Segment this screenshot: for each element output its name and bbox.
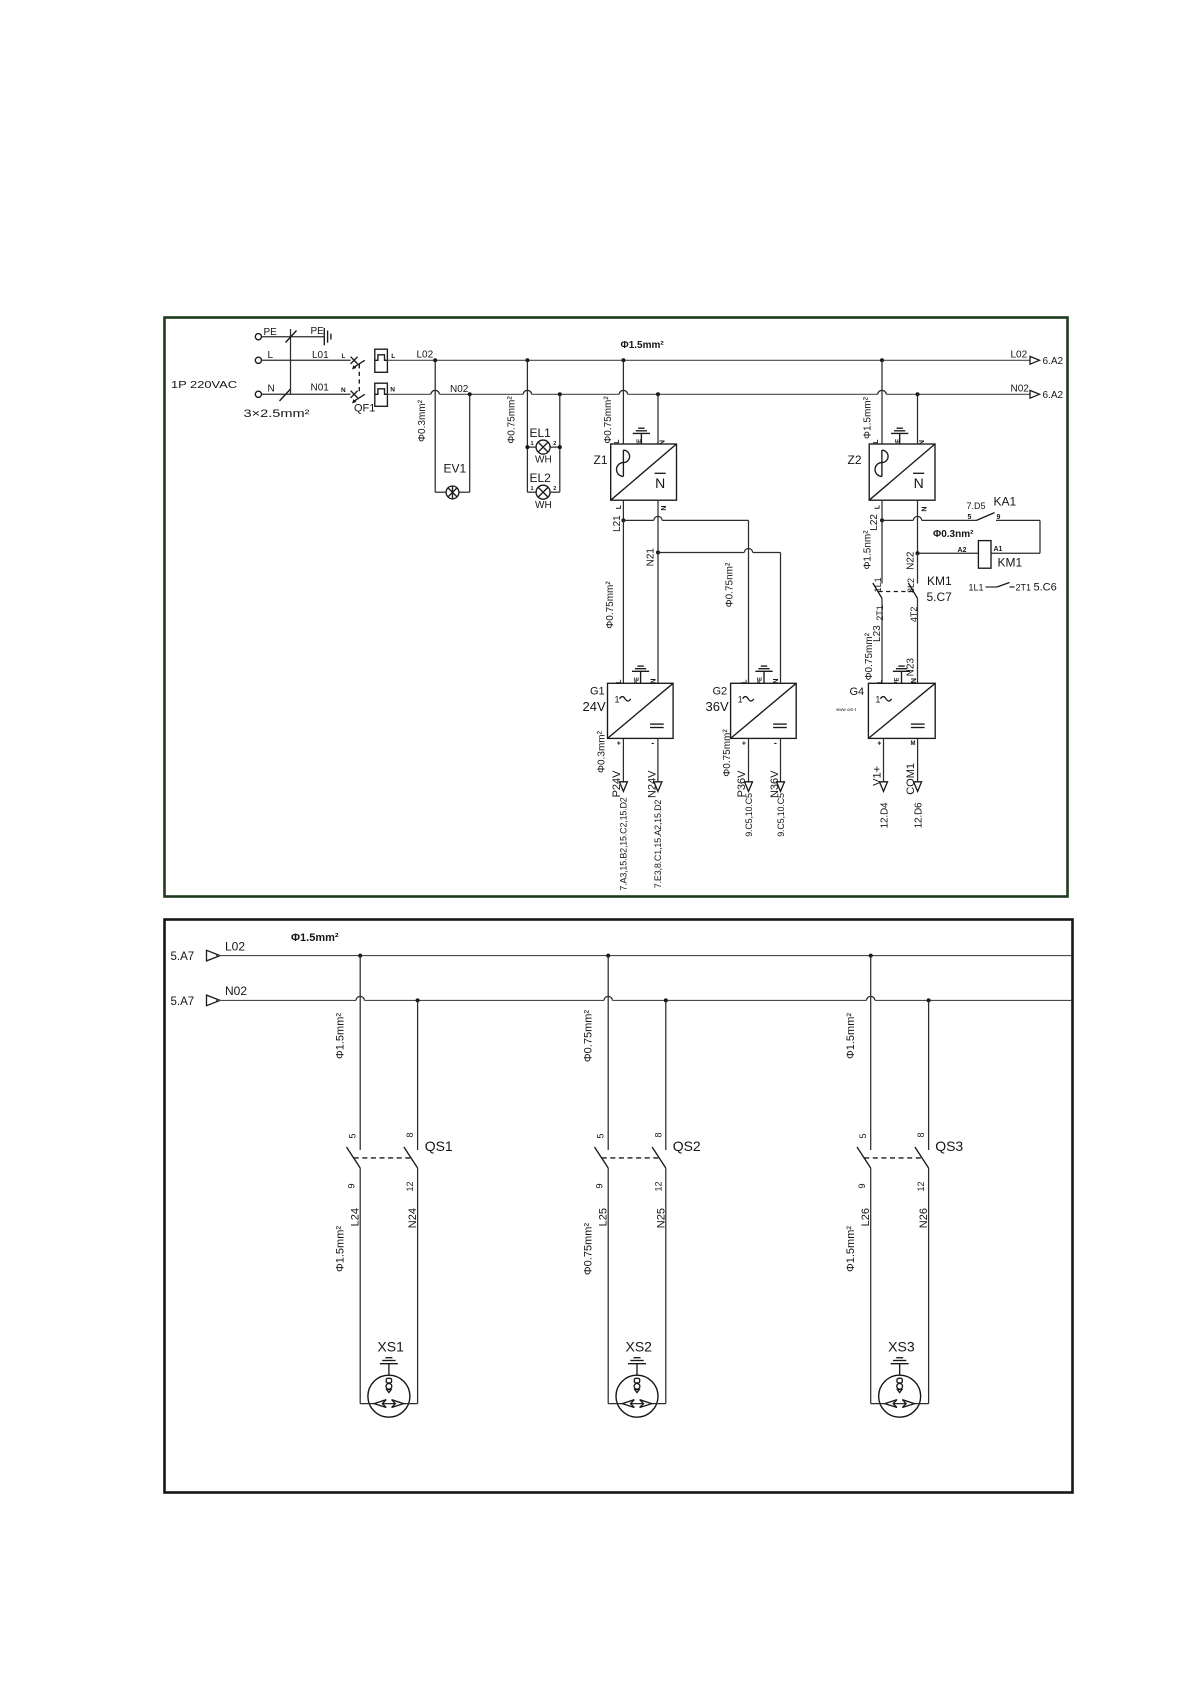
node L21 <box>621 518 625 522</box>
svg-text:2T1: 2T1 <box>875 605 885 621</box>
svg-text:N02: N02 <box>450 384 469 395</box>
svg-text:XS2: XS2 <box>626 1338 653 1354</box>
wire N22 drop <box>917 500 919 553</box>
svg-text:N02: N02 <box>225 984 247 998</box>
ground PE G4 <box>901 671 903 683</box>
svg-text:KM1: KM1 <box>927 574 952 588</box>
arrow P36V <box>745 782 753 792</box>
svg-text:G1: G1 <box>590 686 605 698</box>
svg-text:5: 5 <box>348 1134 358 1139</box>
wire EL left <box>526 360 528 492</box>
bus L02 bottom <box>216 955 1072 957</box>
svg-text:12: 12 <box>653 1182 663 1192</box>
junction dot L02 QS1 <box>358 954 362 958</box>
svg-text:WH: WH <box>535 500 552 511</box>
wire L26 <box>870 1168 872 1404</box>
svg-text:9.C5,10.C5: 9.C5,10.C5 <box>776 793 786 837</box>
svg-text:5.A7: 5.A7 <box>171 951 195 963</box>
svg-text:12.D6: 12.D6 <box>914 802 925 828</box>
wire EV1 bottom <box>435 491 446 493</box>
svg-text:9: 9 <box>595 1184 605 1189</box>
wire L21 drop <box>622 500 624 520</box>
svg-text:5: 5 <box>968 514 972 521</box>
svg-text:EL2: EL2 <box>530 471 552 485</box>
node N21 <box>656 551 660 555</box>
ground XS2 <box>634 1357 641 1359</box>
socket XS1 <box>368 1375 410 1417</box>
junction dot N02 QS1 <box>416 998 420 1002</box>
svg-text:L: L <box>614 439 621 444</box>
svg-text:L: L <box>391 353 395 360</box>
svg-text:PE: PE <box>311 326 325 337</box>
svg-text:7.A3,15.B2,15.C2,15.D2: 7.A3,15.B2,15.C2,15.D2 <box>619 797 629 890</box>
svg-text:Φ1.5mm²: Φ1.5mm² <box>845 1013 857 1059</box>
svg-text:8: 8 <box>405 1133 415 1138</box>
bus N02 bottom with hops <box>216 999 356 1001</box>
svg-text:5: 5 <box>596 1134 606 1139</box>
node N22 <box>916 551 920 555</box>
svg-text:1: 1 <box>531 441 534 447</box>
switch QS3 link <box>864 1157 921 1159</box>
junction dot L02 QS2 <box>606 954 610 958</box>
wire L25 <box>607 1168 609 1404</box>
svg-text:9: 9 <box>347 1184 357 1189</box>
arrow N24V <box>654 782 662 792</box>
socket XS3 earth pin <box>897 1378 902 1383</box>
svg-text:N26: N26 <box>918 1208 930 1228</box>
svg-text:XS3: XS3 <box>888 1338 915 1354</box>
svg-text:A2: A2 <box>958 547 967 554</box>
wire N21 horizontal <box>658 552 744 554</box>
svg-text:5: 5 <box>858 1134 868 1139</box>
wire N24 <box>417 1168 419 1404</box>
svg-text:L01: L01 <box>312 350 329 361</box>
wire L drop QS2 <box>607 956 609 1150</box>
svg-text:2T1: 2T1 <box>1016 583 1032 593</box>
wire corner down <box>1039 520 1041 553</box>
junction dot N02 QS3 <box>927 998 931 1002</box>
arrow P24V <box>619 782 627 792</box>
svg-text:N: N <box>911 678 918 683</box>
svg-text:QS2: QS2 <box>673 1138 701 1154</box>
breaker QF1 link <box>358 364 360 393</box>
wire G1 L input <box>622 520 624 683</box>
svg-text:L02: L02 <box>225 939 245 953</box>
wire coil A1 side <box>991 552 1040 554</box>
wire EL right <box>559 394 561 492</box>
svg-text:N25: N25 <box>655 1208 667 1228</box>
power supply G1 <box>608 683 674 738</box>
svg-text:1: 1 <box>531 486 534 492</box>
terminal PE <box>255 334 261 340</box>
svg-text:2: 2 <box>553 486 556 492</box>
svg-text:1: 1 <box>738 694 743 704</box>
svg-text:L22: L22 <box>869 514 880 531</box>
junction dot N02 QS2 <box>664 998 668 1002</box>
filter Z1 <box>611 444 677 500</box>
ground PE Z1 <box>640 433 642 444</box>
wire Z1 N input <box>657 394 659 444</box>
svg-text:3×2.5mm²: 3×2.5mm² <box>244 408 310 420</box>
wire EV1 right <box>469 394 471 492</box>
svg-text:1: 1 <box>875 694 880 704</box>
svg-text:QF1: QF1 <box>354 403 375 415</box>
svg-text:Φ1.5mm²: Φ1.5mm² <box>863 396 874 439</box>
svg-text:N: N <box>390 387 395 394</box>
wire G1 N input <box>657 553 659 684</box>
ground PE input <box>323 328 325 345</box>
wire COM1 <box>917 738 919 781</box>
wire N26 <box>928 1168 930 1404</box>
svg-text:36V: 36V <box>706 699 729 714</box>
svg-text:Φ1.5mm²: Φ1.5mm² <box>621 340 665 351</box>
socket XS3 slot L <box>885 1400 897 1408</box>
svg-text:L02: L02 <box>417 350 434 361</box>
svg-text:Φ0.75mm²: Φ0.75mm² <box>605 581 616 629</box>
svg-text:N: N <box>921 507 928 512</box>
wire EV1 left <box>434 360 436 492</box>
svg-text:N24: N24 <box>407 1208 419 1228</box>
arrow V1+ <box>880 782 888 792</box>
wire P36V <box>748 738 750 781</box>
svg-text:EL1: EL1 <box>530 426 552 440</box>
wire N23 <box>917 598 919 683</box>
ground XS1 <box>385 1357 392 1359</box>
wire L24 <box>359 1168 361 1404</box>
contactor KM1 main contact N <box>917 553 919 583</box>
svg-text:L26: L26 <box>860 1208 872 1226</box>
svg-text:A1: A1 <box>994 546 1003 553</box>
svg-text:6.A2: 6.A2 <box>1043 356 1064 367</box>
junction dots L02 <box>433 358 437 362</box>
svg-text:L: L <box>616 504 623 509</box>
wire Z2 L input <box>881 360 883 444</box>
svg-text:9.C5,10.C5: 9.C5,10.C5 <box>744 793 754 837</box>
svg-text:+: + <box>877 740 881 747</box>
wire N21 drop <box>657 500 659 552</box>
svg-text:12: 12 <box>405 1182 415 1192</box>
svg-text:Φ0.75mm²: Φ0.75mm² <box>583 1010 595 1063</box>
junction dot L02 QS3 <box>869 954 873 958</box>
svg-text:8: 8 <box>653 1133 663 1138</box>
svg-text:Φ1.5nm²: Φ1.5nm² <box>863 530 874 570</box>
wire L22 drop <box>881 500 883 520</box>
arrow N36V <box>777 782 785 792</box>
svg-text:5.C6: 5.C6 <box>1034 582 1057 594</box>
wire N drop QS1 <box>417 1000 419 1150</box>
ground PE G2 <box>763 671 765 683</box>
cable marker 3x2.5mm2 <box>290 329 292 394</box>
svg-text:COM1: COM1 <box>905 763 917 795</box>
svg-text:Φ0.3mm²: Φ0.3mm² <box>597 730 608 773</box>
bus L02 <box>387 359 1030 361</box>
node L22 <box>880 518 884 522</box>
wire socket row XS2 <box>608 1403 666 1405</box>
svg-text:N01: N01 <box>311 382 330 393</box>
wire N25 <box>665 1168 667 1404</box>
wire N24V <box>657 738 659 781</box>
svg-text:N: N <box>268 384 275 395</box>
svg-text:N: N <box>341 387 346 394</box>
svg-text:QS3: QS3 <box>935 1138 963 1154</box>
svg-text:7.E3,8.C1,15.A2,15.D2: 7.E3,8.C1,15.A2,15.D2 <box>653 800 663 889</box>
svg-text:N: N <box>655 475 665 491</box>
svg-text:Φ0.75mm²: Φ0.75mm² <box>507 396 518 444</box>
bus N02 with hops <box>387 393 431 395</box>
svg-text:N22: N22 <box>906 551 917 570</box>
lamp EL1 row <box>527 446 536 448</box>
socket XS1 earth pin <box>386 1378 391 1383</box>
wire L drop QS3 <box>870 956 872 1150</box>
svg-text:Φ1.5mm²: Φ1.5mm² <box>335 1013 347 1059</box>
wire N36V <box>780 738 782 781</box>
svg-text:L24: L24 <box>350 1208 362 1226</box>
wire G2 L feed <box>748 520 750 683</box>
svg-text:L: L <box>873 439 880 444</box>
wire Z1 L input <box>622 360 624 444</box>
svg-text:Z2: Z2 <box>848 453 862 467</box>
svg-text:1: 1 <box>615 694 620 704</box>
svg-text:N21: N21 <box>646 548 657 567</box>
svg-text:Φ0.3nm²: Φ0.3nm² <box>933 529 974 540</box>
svg-text:Φ0.3mm²: Φ0.3mm² <box>417 399 428 442</box>
svg-text:XS1: XS1 <box>377 1338 404 1354</box>
svg-text:G4: G4 <box>850 686 865 698</box>
wire V1+ <box>883 738 885 781</box>
wire socket row XS3 <box>871 1403 929 1405</box>
svg-text:G2: G2 <box>713 686 728 698</box>
svg-text:Φ0.75mm²: Φ0.75mm² <box>583 1223 595 1276</box>
svg-text:M: M <box>911 741 916 747</box>
wire L21 horizontal <box>623 519 653 521</box>
svg-text:L: L <box>342 353 346 360</box>
wire L drop QS1 <box>359 956 361 1150</box>
svg-text:L: L <box>874 504 881 509</box>
svg-text:12.D4: 12.D4 <box>880 802 891 828</box>
wire N22 horizontal <box>918 552 979 554</box>
svg-text:KM1: KM1 <box>998 556 1023 570</box>
power supply G4 <box>868 683 935 738</box>
svg-text:N: N <box>661 506 668 511</box>
top panel border <box>165 318 1068 897</box>
wire G2 N feed <box>780 553 782 684</box>
arrow COM1 <box>914 782 922 792</box>
wire PE input <box>262 336 325 338</box>
svg-text:3L2: 3L2 <box>906 578 916 593</box>
svg-text:L02: L02 <box>1011 349 1028 360</box>
svg-text:-: - <box>651 738 654 748</box>
svg-text:8: 8 <box>916 1133 926 1138</box>
contactor KM1 main contact L <box>881 520 883 583</box>
wire N drop QS2 <box>665 1000 667 1150</box>
socket XS3 slot N <box>902 1400 914 1408</box>
filter Z2 <box>869 444 935 500</box>
wire Z2 N input <box>917 394 919 444</box>
socket XS1 slot L <box>374 1400 386 1408</box>
svg-text:QS1: QS1 <box>425 1138 453 1154</box>
switch QS1 link <box>354 1157 411 1159</box>
svg-text:L25: L25 <box>598 1208 610 1226</box>
svg-text:Φ0.75mm²: Φ0.75mm² <box>864 632 875 680</box>
svg-text:7.D5: 7.D5 <box>967 501 986 511</box>
svg-text:WH: WH <box>535 455 552 466</box>
svg-text:2: 2 <box>553 441 556 447</box>
svg-text:24V: 24V <box>583 699 606 714</box>
svg-text:9: 9 <box>857 1184 867 1189</box>
terminal L <box>255 357 261 363</box>
wire N drop QS3 <box>928 1000 930 1150</box>
svg-text:www om-t: www om-t <box>836 707 857 712</box>
svg-text:Φ0.75nm²: Φ0.75nm² <box>725 562 736 607</box>
svg-text:5.A7: 5.A7 <box>171 996 195 1008</box>
svg-text:N02: N02 <box>1011 383 1030 394</box>
socket XS1 slot N <box>392 1400 404 1408</box>
ground XS3 <box>896 1357 903 1359</box>
wire L22 horizontal <box>882 519 913 521</box>
svg-text:12: 12 <box>916 1182 926 1192</box>
svg-text:6.A2: 6.A2 <box>1043 390 1064 401</box>
svg-text:+: + <box>617 740 621 747</box>
power supply G2 <box>731 683 797 738</box>
wire socket row XS1 <box>360 1403 417 1405</box>
svg-text:Φ0.75mm²: Φ0.75mm² <box>603 396 614 444</box>
wire L01 <box>262 359 351 361</box>
socket XS2 slot L <box>622 1400 634 1408</box>
svg-text:EV1: EV1 <box>444 462 467 476</box>
svg-text:-: - <box>774 738 777 748</box>
svg-text:Z1: Z1 <box>594 453 608 467</box>
fan EV1 <box>446 486 459 499</box>
svg-text:1P 220VAC: 1P 220VAC <box>171 380 237 391</box>
socket XS2 <box>616 1375 658 1417</box>
svg-text:1L1: 1L1 <box>969 583 984 593</box>
wire L23 <box>881 598 883 683</box>
svg-text:+: + <box>742 740 746 747</box>
svg-text:Φ1.5mm²: Φ1.5mm² <box>291 932 339 944</box>
terminal N <box>255 391 261 397</box>
lamp EL2 row <box>527 491 536 493</box>
socket XS2 slot N <box>640 1400 652 1408</box>
switch QS2 link <box>602 1157 659 1159</box>
wire P24V <box>622 738 624 781</box>
wire KA1 to corner <box>996 519 1040 521</box>
socket XS3 <box>879 1375 921 1417</box>
bottom panel border <box>165 920 1073 1493</box>
junction dots N02 <box>468 392 472 396</box>
ground PE Z2 <box>899 433 901 444</box>
svg-text:N23: N23 <box>906 658 917 677</box>
svg-text:L: L <box>268 350 274 361</box>
svg-text:Φ1.5mm²: Φ1.5mm² <box>845 1226 857 1272</box>
svg-text:N: N <box>914 475 924 491</box>
svg-text:5.C7: 5.C7 <box>927 590 953 604</box>
ground PE G1 <box>640 671 642 683</box>
svg-text:Φ1.5mm²: Φ1.5mm² <box>335 1226 347 1272</box>
svg-text:Φ0.75mm²: Φ0.75mm² <box>722 729 733 777</box>
svg-text:L21: L21 <box>612 515 623 532</box>
svg-text:KA1: KA1 <box>994 495 1017 509</box>
contactor coil KM1 <box>978 541 991 569</box>
wire N01 <box>262 393 351 395</box>
contactor KM1 link <box>879 591 915 593</box>
socket XS2 earth pin <box>634 1378 639 1383</box>
